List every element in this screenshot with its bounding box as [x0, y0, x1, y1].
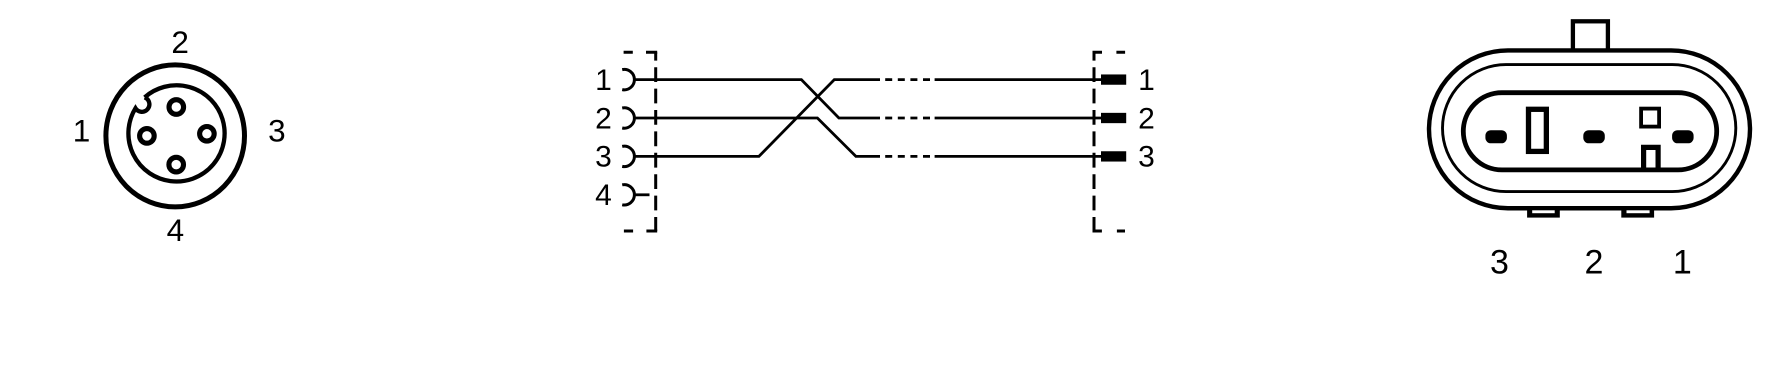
wire 1-2 right solid part [935, 117, 1101, 120]
right pin labels [1138, 64, 1155, 174]
svg-text:1: 1 [73, 113, 91, 149]
terminal pad 1 [1101, 74, 1126, 84]
J2 keying notch on cavity bottom [1641, 147, 1661, 169]
J2 top locking tab [1573, 21, 1608, 54]
wire 1-2 cable-break dashes [880, 117, 935, 120]
connector J1 face view (M8 female, 4-pin) [106, 65, 245, 207]
wire stub pin 4 [634, 193, 649, 196]
bracket vertical dashed line [654, 52, 657, 231]
J1 pin 4 contact (bottom) [169, 157, 184, 172]
J2 outer housing [1429, 50, 1750, 208]
socket arc pin 2 [622, 108, 634, 128]
J2 keying slot (vertical) [1529, 109, 1547, 151]
left socket contact arcs [622, 69, 634, 205]
wire 2-3 cable-break dashes [880, 155, 935, 158]
socket arc pin 1 [622, 69, 634, 89]
wire 3-1 cable-break dashes [880, 78, 935, 81]
J2 pin 2 blade [1583, 130, 1605, 143]
bracket top arm dashes [624, 51, 658, 54]
J2 middle seal ring [1443, 65, 1736, 192]
J2 keying square [1641, 109, 1659, 127]
svg-text:3: 3 [1490, 244, 1509, 282]
J1 pin 1 contact (left) [140, 129, 155, 144]
socket arc pin 3 [622, 146, 634, 166]
svg-text:3: 3 [595, 141, 612, 174]
svg-text:2: 2 [171, 24, 189, 60]
J2 pin 1 blade [1672, 130, 1694, 143]
wires [634, 80, 1101, 195]
svg-text:1: 1 [1673, 244, 1692, 282]
bracket top arm dashes [1093, 51, 1126, 54]
terminal pad 2 [1101, 113, 1126, 123]
J2 bottom mounting tab right [1621, 206, 1654, 217]
bracket bottom arm dashes [1093, 230, 1126, 233]
J2 pin 3 blade [1485, 130, 1507, 143]
svg-text:3: 3 [268, 113, 286, 149]
svg-text:4: 4 [595, 179, 612, 212]
J2 inner cavity [1463, 93, 1716, 170]
right terminal pads [1101, 74, 1126, 161]
svg-text:3: 3 [1138, 141, 1155, 174]
wire from left pin 2 to right pin 3 (solid part) [634, 118, 880, 156]
svg-text:2: 2 [595, 102, 612, 135]
bracket vertical dashed line [1093, 52, 1096, 231]
left pin labels [595, 64, 612, 212]
J1 inner shell circle with keyway notch [128, 85, 224, 181]
wire from left pin 3 to right pin 1 (solid part) [634, 80, 880, 157]
wire 2-3 right solid part [935, 155, 1101, 158]
svg-text:4: 4 [167, 212, 185, 248]
J1 pin 3 contact (right) [200, 127, 215, 142]
svg-text:1: 1 [1138, 64, 1155, 97]
svg-text:2: 2 [1138, 102, 1155, 135]
socket arc pin 4 [622, 185, 634, 205]
J1 pin 2 contact (top) [169, 100, 184, 115]
left connector boundary (dashed bracket) [624, 52, 658, 231]
wire from left pin 1 to right pin 2 (solid part) [634, 80, 880, 118]
svg-text:1: 1 [595, 64, 612, 97]
svg-text:2: 2 [1585, 244, 1604, 282]
terminal pad 3 [1101, 151, 1126, 161]
wire 3-1 right solid part [935, 78, 1101, 81]
J1 outer shell circle [106, 65, 245, 207]
J2 bottom mounting tab left [1527, 206, 1560, 217]
bracket bottom arm dashes [624, 230, 657, 233]
right connector boundary (dashed bracket) [1093, 52, 1126, 231]
